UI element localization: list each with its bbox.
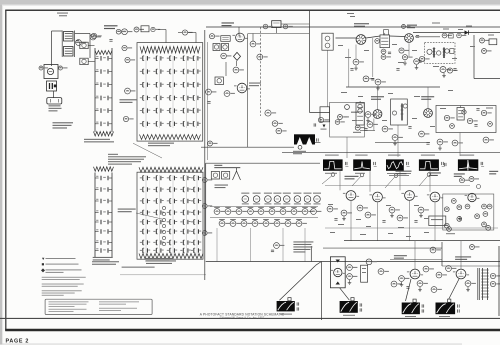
resistor R8 — [122, 45, 127, 50]
remote component row3 item 7 — [285, 221, 291, 227]
diode bottom in vert box — [336, 282, 341, 285]
capacitor C15 — [207, 101, 210, 103]
frame left border line — [5, 10, 7, 330]
tuning indicator label — [249, 83, 261, 84]
on-off volume control label — [215, 185, 229, 186]
det trimmer 1 — [427, 49, 432, 54]
resistor R35 — [355, 125, 360, 130]
peaking coil R39 — [442, 33, 447, 38]
tuner 2 wafer contacts row 6 — [142, 229, 144, 234]
horiz output tube V27 — [456, 269, 466, 279]
scan gray sliver bottom — [2, 343, 462, 346]
resistor R25 — [224, 91, 230, 97]
oscillator 2 taps row 1 — [95, 177, 99, 179]
resistor R60 — [274, 243, 280, 249]
tuner 2 wafer contacts row 2 — [142, 187, 144, 192]
remote tube row1 V17 — [283, 193, 291, 194]
volume control box — [215, 77, 223, 85]
tuner 2 wafer contacts row 3 — [142, 199, 144, 204]
resistor R7a — [91, 33, 96, 38]
remote tube row1 label 7 — [304, 203, 311, 204]
2nd IF tube V10 — [373, 110, 382, 119]
UHF tuner wafer assembly box — [137, 172, 203, 259]
legend bullet line 2 — [42, 263, 44, 265]
remote tube row1 V16 — [273, 193, 281, 194]
boxed capacitor pair 1 — [213, 44, 220, 51]
scan gray band top — [0, 0, 500, 5]
resistor above horiz box — [469, 177, 474, 182]
tuner 2 wafer rails — [145, 175, 147, 255]
remote row drops to bus — [216, 228, 218, 262]
grid top feed wire — [158, 29, 166, 31]
tuner wafer contacts row 3 — [142, 82, 144, 87]
remote tube row1 V14 — [253, 193, 261, 194]
control panel text block — [293, 241, 313, 242]
resistor R46 — [447, 68, 452, 73]
sync bus wire 2 — [323, 247, 442, 249]
AGC tube V7 — [345, 105, 350, 110]
tube V1 ratio detector — [76, 40, 82, 46]
top right labels — [432, 23, 440, 24]
wire diagonal to yoke — [340, 288, 350, 300]
remote tube row1 V13 — [241, 193, 249, 194]
waveform photo 3 — [388, 155, 400, 156]
label hi-fi phono jack — [49, 105, 61, 106]
resistor R28 — [283, 24, 288, 29]
IF bus wire — [336, 37, 357, 39]
callout line to wafer — [133, 143, 162, 158]
oscillator 2 taps row 2 — [95, 189, 99, 191]
tuner 2 bottom zigzag — [139, 254, 203, 259]
oscillator 2 rail left — [94, 173, 96, 259]
resistor R9 — [125, 88, 131, 94]
horiz box resistors — [451, 199, 456, 204]
resistor R71 — [470, 245, 475, 250]
HV winding terminal — [298, 145, 302, 149]
label below tuner 2 — [146, 260, 176, 261]
remote tube row labels — [243, 191, 254, 193]
legend paragraph — [42, 276, 86, 279]
resistor R33 — [338, 115, 343, 120]
IF area label specks — [338, 45, 343, 46]
resistor R6 boxed — [80, 58, 88, 64]
phono label above transformer — [57, 13, 68, 14]
remote tube row1 V18 — [293, 193, 301, 194]
tuner wafer contacts row 5 — [142, 108, 144, 113]
capacitor C18 — [263, 24, 268, 29]
resistor R41 — [363, 76, 369, 82]
capacitor C20 — [313, 123, 315, 126]
tuner wafer rails — [145, 56, 147, 128]
remote component row2 item 2 — [225, 209, 231, 215]
sync bus wire 1 — [344, 240, 500, 242]
grid top components — [134, 27, 139, 32]
tuner wafer contacts row 1 — [142, 56, 144, 61]
vert osc label — [345, 176, 359, 177]
resistor on AGC row — [208, 141, 213, 146]
oscillator coil taps row 1 — [95, 57, 99, 59]
vert hold control box — [429, 216, 446, 226]
oscillator 2 top zigzag — [94, 167, 114, 172]
resistor R39b — [457, 33, 462, 38]
remote component row2 item 6 — [269, 209, 275, 215]
small circle right — [477, 185, 481, 189]
resistor R45 — [440, 67, 446, 73]
remote component row2 item 10 — [311, 209, 317, 215]
resistor R42b — [402, 55, 407, 60]
resistor R20a on drop — [252, 34, 254, 42]
vert output transformer black — [277, 301, 295, 311]
remote tube row1 V20 — [313, 193, 321, 194]
oscillator coil taps row 4 — [95, 97, 99, 99]
amplifier tube V2 — [47, 68, 53, 74]
AGC circles right — [358, 104, 362, 108]
tuner coil chain bottom zigzag — [140, 135, 201, 140]
tuner 2 inner coil column — [162, 206, 165, 209]
bottom vertical drops — [414, 241, 416, 269]
remote box left edge — [205, 163, 207, 235]
sync row vertical drops — [350, 201, 352, 241]
audio input transformer T1 — [64, 32, 74, 42]
pix IF input box — [272, 21, 281, 28]
det load box — [450, 49, 454, 54]
waveform photo 5 — [460, 155, 474, 156]
wire horiz — [390, 259, 442, 261]
vert output label right — [454, 173, 465, 174]
resistor R70 — [430, 247, 436, 253]
oscillator coil taps row 5 — [95, 110, 99, 112]
main B plus bus — [206, 261, 500, 263]
high voltage winding solid black — [294, 134, 315, 144]
1st IF coil T2 — [384, 30, 389, 35]
HV rect label — [293, 151, 306, 152]
boxed capacitor pair 2 — [222, 44, 229, 51]
video bus horizontal — [309, 111, 330, 113]
video det output box — [436, 106, 496, 133]
video detector alignment box dashed — [425, 42, 456, 63]
waveform 4 coupling capacitor — [441, 162, 443, 165]
sound takeoff label — [222, 22, 235, 23]
resistor R40 — [353, 59, 359, 65]
left coupling box — [320, 107, 330, 122]
resistor R24 — [206, 89, 212, 95]
yoke vert caps — [359, 303, 361, 306]
vertical wire from pix box — [275, 28, 277, 34]
pix wire to video bus — [281, 23, 309, 25]
right bus vertical — [473, 35, 475, 79]
vert mult label — [394, 255, 407, 256]
svg-text:©Howard W. Sams & Co., Inc. 19: ©Howard W. Sams & Co., Inc. 1957 — [220, 316, 265, 320]
resistor R2 — [90, 34, 96, 40]
rule under tuner section — [120, 274, 206, 276]
terminal circle at bus — [209, 34, 214, 39]
capacitor C40 — [271, 249, 274, 251]
remote tube row1 label 2 — [253, 203, 260, 204]
bottom resistors — [399, 276, 405, 282]
wire T1 to amplifier — [52, 30, 63, 32]
waveform 5 divider — [467, 160, 469, 170]
AGC keyer box — [330, 102, 365, 137]
oscillator 2 taps row 5 — [95, 221, 99, 223]
resistor R44 — [414, 59, 420, 65]
sync row horizontal wire — [325, 185, 470, 187]
vert freq control — [447, 227, 452, 232]
resistor R64 — [378, 269, 384, 275]
resistor R36 left of AGC box — [318, 117, 323, 122]
sync row resistors — [327, 206, 333, 212]
lower IF resistors — [365, 112, 371, 118]
sync inv label — [429, 172, 441, 173]
tuner 2 wafer contacts row 8 — [142, 248, 144, 253]
label below oscillator 2 — [92, 261, 119, 262]
horiz osc tube V24b — [468, 193, 476, 201]
tuning indicator tube V6 — [237, 83, 247, 93]
video det tube V9 — [405, 34, 414, 43]
diamond test point node — [234, 52, 241, 60]
remote component row3 item 8 — [296, 221, 302, 227]
vert transformer caps — [296, 302, 298, 305]
vert mult tube V26 — [410, 269, 420, 279]
tuner part number line — [122, 267, 155, 268]
label below oscillator rails — [84, 139, 110, 140]
audio amplifier stage box — [44, 65, 58, 79]
resistor R8b — [125, 57, 130, 62]
capacitor C7 top — [122, 29, 128, 35]
bus drop 2 — [320, 262, 322, 321]
oscillator 2 taps row 3 — [95, 200, 99, 202]
remote tube row1 V19 — [304, 193, 312, 194]
det box extra parts — [450, 124, 455, 129]
sync row capacitors — [334, 218, 337, 220]
waveform photo 2 — [355, 155, 367, 156]
service notes box — [45, 299, 152, 314]
IF strip vertical drops — [327, 50, 329, 107]
oscillator 2 rail right — [111, 173, 113, 259]
sync inv tube V23 — [405, 191, 415, 201]
remote component row3 item 5 — [263, 221, 269, 227]
width coil caps — [457, 304, 459, 307]
waveform 5 left capacitor — [443, 163, 445, 166]
remote tube row1 label 5 — [283, 203, 290, 204]
hi-fi phono jack — [47, 98, 62, 104]
tuner 2 wafer contacts row 7 — [142, 240, 144, 245]
HV capacitor — [316, 138, 318, 141]
4.5MC trap box — [221, 36, 230, 42]
det coil Lb — [443, 48, 445, 59]
lower IF wires — [360, 130, 375, 132]
IF interstage box — [391, 99, 408, 125]
remote component row2 item 3 — [236, 209, 242, 215]
waveform photo 1 — [325, 155, 339, 156]
capacitor C30 — [453, 68, 456, 70]
notes box column 2 — [99, 300, 139, 303]
resistor R42 — [399, 48, 404, 53]
3rd video IF label — [421, 96, 434, 97]
section divider wire above waveform row — [282, 151, 500, 153]
IF decoupling caps — [350, 68, 353, 70]
tuner bus components — [202, 178, 207, 183]
antenna balun resistor chain zigzag — [140, 47, 200, 54]
oscillator coil taps row 3 — [95, 84, 99, 86]
waveform 3 caption text — [387, 172, 411, 175]
oscillator 2 taps row 8 — [95, 250, 99, 252]
det trimmer 2 — [437, 51, 441, 55]
oscillator 2 taps row 6 — [95, 231, 99, 233]
terminal left of amplifier — [39, 66, 43, 70]
resistor R31 — [276, 128, 282, 134]
drive control vertical line — [441, 242, 443, 266]
terminal right of amplifier — [59, 66, 63, 70]
brightness pot — [482, 49, 487, 54]
flyback transformer winding — [482, 268, 484, 300]
waveform 1 coupling capacitor — [344, 162, 346, 165]
RF tuner wafer switch assembly box — [137, 43, 203, 142]
resistor R61 — [347, 265, 353, 271]
IF strip top specks — [347, 13, 354, 14]
tuner note text block — [108, 154, 118, 155]
tuner 2 wafer contacts row 1 — [142, 176, 144, 181]
parts caption right — [145, 258, 172, 259]
oscillator coil taps row 2 — [95, 71, 99, 73]
horiz AFC tube V24 — [430, 192, 440, 202]
remote component row3 item 3 — [241, 221, 247, 227]
HV rectifier resistor — [490, 273, 495, 278]
IF AGC return wire — [346, 86, 440, 88]
oscillator bottom zigzag — [94, 132, 114, 137]
vert osc tube V21 — [346, 191, 356, 201]
legend bullet line 1 — [42, 258, 44, 260]
remote tube row1 label 1 — [242, 203, 249, 204]
IF input box — [322, 33, 333, 50]
tuner wafer contacts row 2 — [142, 69, 144, 74]
wire control to jack — [53, 91, 55, 98]
2nd video IF label top — [402, 25, 406, 29]
1st video IF label — [354, 23, 369, 24]
waveform callout circles and lines — [331, 173, 335, 177]
boost cap — [406, 286, 409, 288]
sync section top rule — [206, 162, 320, 164]
scan gray strip left — [0, 5, 2, 345]
remote control receiver label — [214, 165, 222, 166]
remote antenna — [233, 171, 237, 180]
legend bullet line 3 — [41, 268, 45, 272]
waveform caption 1 — [325, 173, 337, 174]
remote tube row1 label 3 — [264, 203, 271, 204]
coupling cap at V9 — [416, 35, 419, 37]
wire mid drop — [225, 62, 227, 76]
remote tube row1 V15 — [264, 193, 272, 194]
volume control box — [47, 81, 57, 91]
waveform to tube drops — [339, 171, 341, 190]
sync sep tube V22 — [373, 192, 383, 202]
B plus boost label — [104, 25, 118, 26]
oscillator 2 taps row 7 — [95, 242, 99, 244]
remote tube row1 label 6 — [294, 203, 301, 204]
width coil black — [436, 303, 456, 315]
resistor R34 — [335, 120, 340, 125]
tuner wafer contacts row 6 — [142, 121, 144, 126]
horiz osc label — [489, 171, 498, 172]
B plus bus top horizontal — [206, 26, 500, 28]
tuner 2 top resistor zigzag — [139, 167, 203, 172]
resistor R63 — [366, 259, 372, 265]
trap adjust circle — [257, 54, 263, 60]
capacitor C1 at T1 — [76, 40, 79, 42]
deflection yoke vert black — [340, 301, 358, 313]
det box resistor Rc — [481, 110, 486, 115]
transformer labels under black boxes — [280, 314, 292, 315]
right edge bus — [498, 246, 500, 316]
vert output tube V25 — [334, 268, 342, 276]
station selector callout text — [120, 99, 137, 100]
lower IF caps — [364, 128, 367, 130]
remote component row2 item 5 — [258, 209, 264, 215]
frame bottom thick border line — [5, 329, 500, 331]
det box capacitor — [476, 108, 479, 110]
sound takeoff coil — [233, 67, 239, 73]
crystal diode M1 — [465, 30, 469, 34]
small box on bus — [449, 34, 454, 38]
interstage resistor R43 — [375, 39, 380, 44]
label below tuner box 1 — [148, 143, 174, 144]
resistor at grid top right — [182, 30, 187, 35]
horiz output label — [455, 256, 471, 257]
yoke horiz caps — [421, 304, 423, 307]
remote tube row1 label 4 — [274, 203, 281, 204]
sync sep label — [396, 171, 412, 172]
remote component row2 item 8 — [291, 209, 297, 215]
3rd IF tube V11 — [424, 109, 433, 118]
video bus vertical — [308, 11, 310, 112]
remote tube row1 label 8 — [314, 203, 321, 204]
oscillator section rail left — [94, 48, 96, 132]
station selector 2 callout — [118, 209, 136, 210]
oscillator top zigzag — [95, 51, 112, 55]
row interconnect wires — [210, 206, 318, 208]
wire tube to vert transformer — [406, 279, 412, 301]
resistor R5 boxed — [80, 42, 88, 48]
oscillator 2 taps row 4 — [95, 212, 99, 214]
oscillator section rail right — [111, 48, 113, 132]
video detector bus — [413, 32, 500, 34]
sync row horizontal wire 2 — [325, 227, 498, 229]
notes box column 1 — [49, 300, 89, 303]
det box resistor Ra — [444, 115, 449, 120]
remote component row2 item 4 — [248, 209, 254, 215]
agc line capacitor — [109, 39, 112, 41]
HV rectifier resistor 2 — [490, 281, 495, 286]
drop to sound IF tube — [238, 27, 240, 36]
det box resistor Rb — [467, 118, 472, 123]
right bus horizontal — [474, 78, 500, 80]
waveform caption 2 — [355, 173, 365, 174]
contrast pot — [480, 38, 485, 43]
2nd video IF label — [371, 96, 384, 97]
electrolytic capacitor C3 in control box — [49, 83, 51, 89]
resistor R30 — [272, 121, 278, 127]
terminal circle — [123, 116, 128, 121]
frame top border line — [5, 9, 500, 11]
remote component row2 item 9 — [302, 209, 308, 215]
CRT coupling box — [489, 39, 497, 45]
waveform 5 coupling capacitor — [480, 162, 482, 165]
1st video IF tube V8 — [356, 35, 366, 45]
ground symbols bottom — [401, 282, 403, 285]
remote component row3 item 2 — [230, 221, 236, 227]
remote component row3 item 6 — [274, 221, 280, 227]
remote component row2 item 7 — [280, 209, 286, 215]
vertical output stage box — [330, 257, 345, 288]
